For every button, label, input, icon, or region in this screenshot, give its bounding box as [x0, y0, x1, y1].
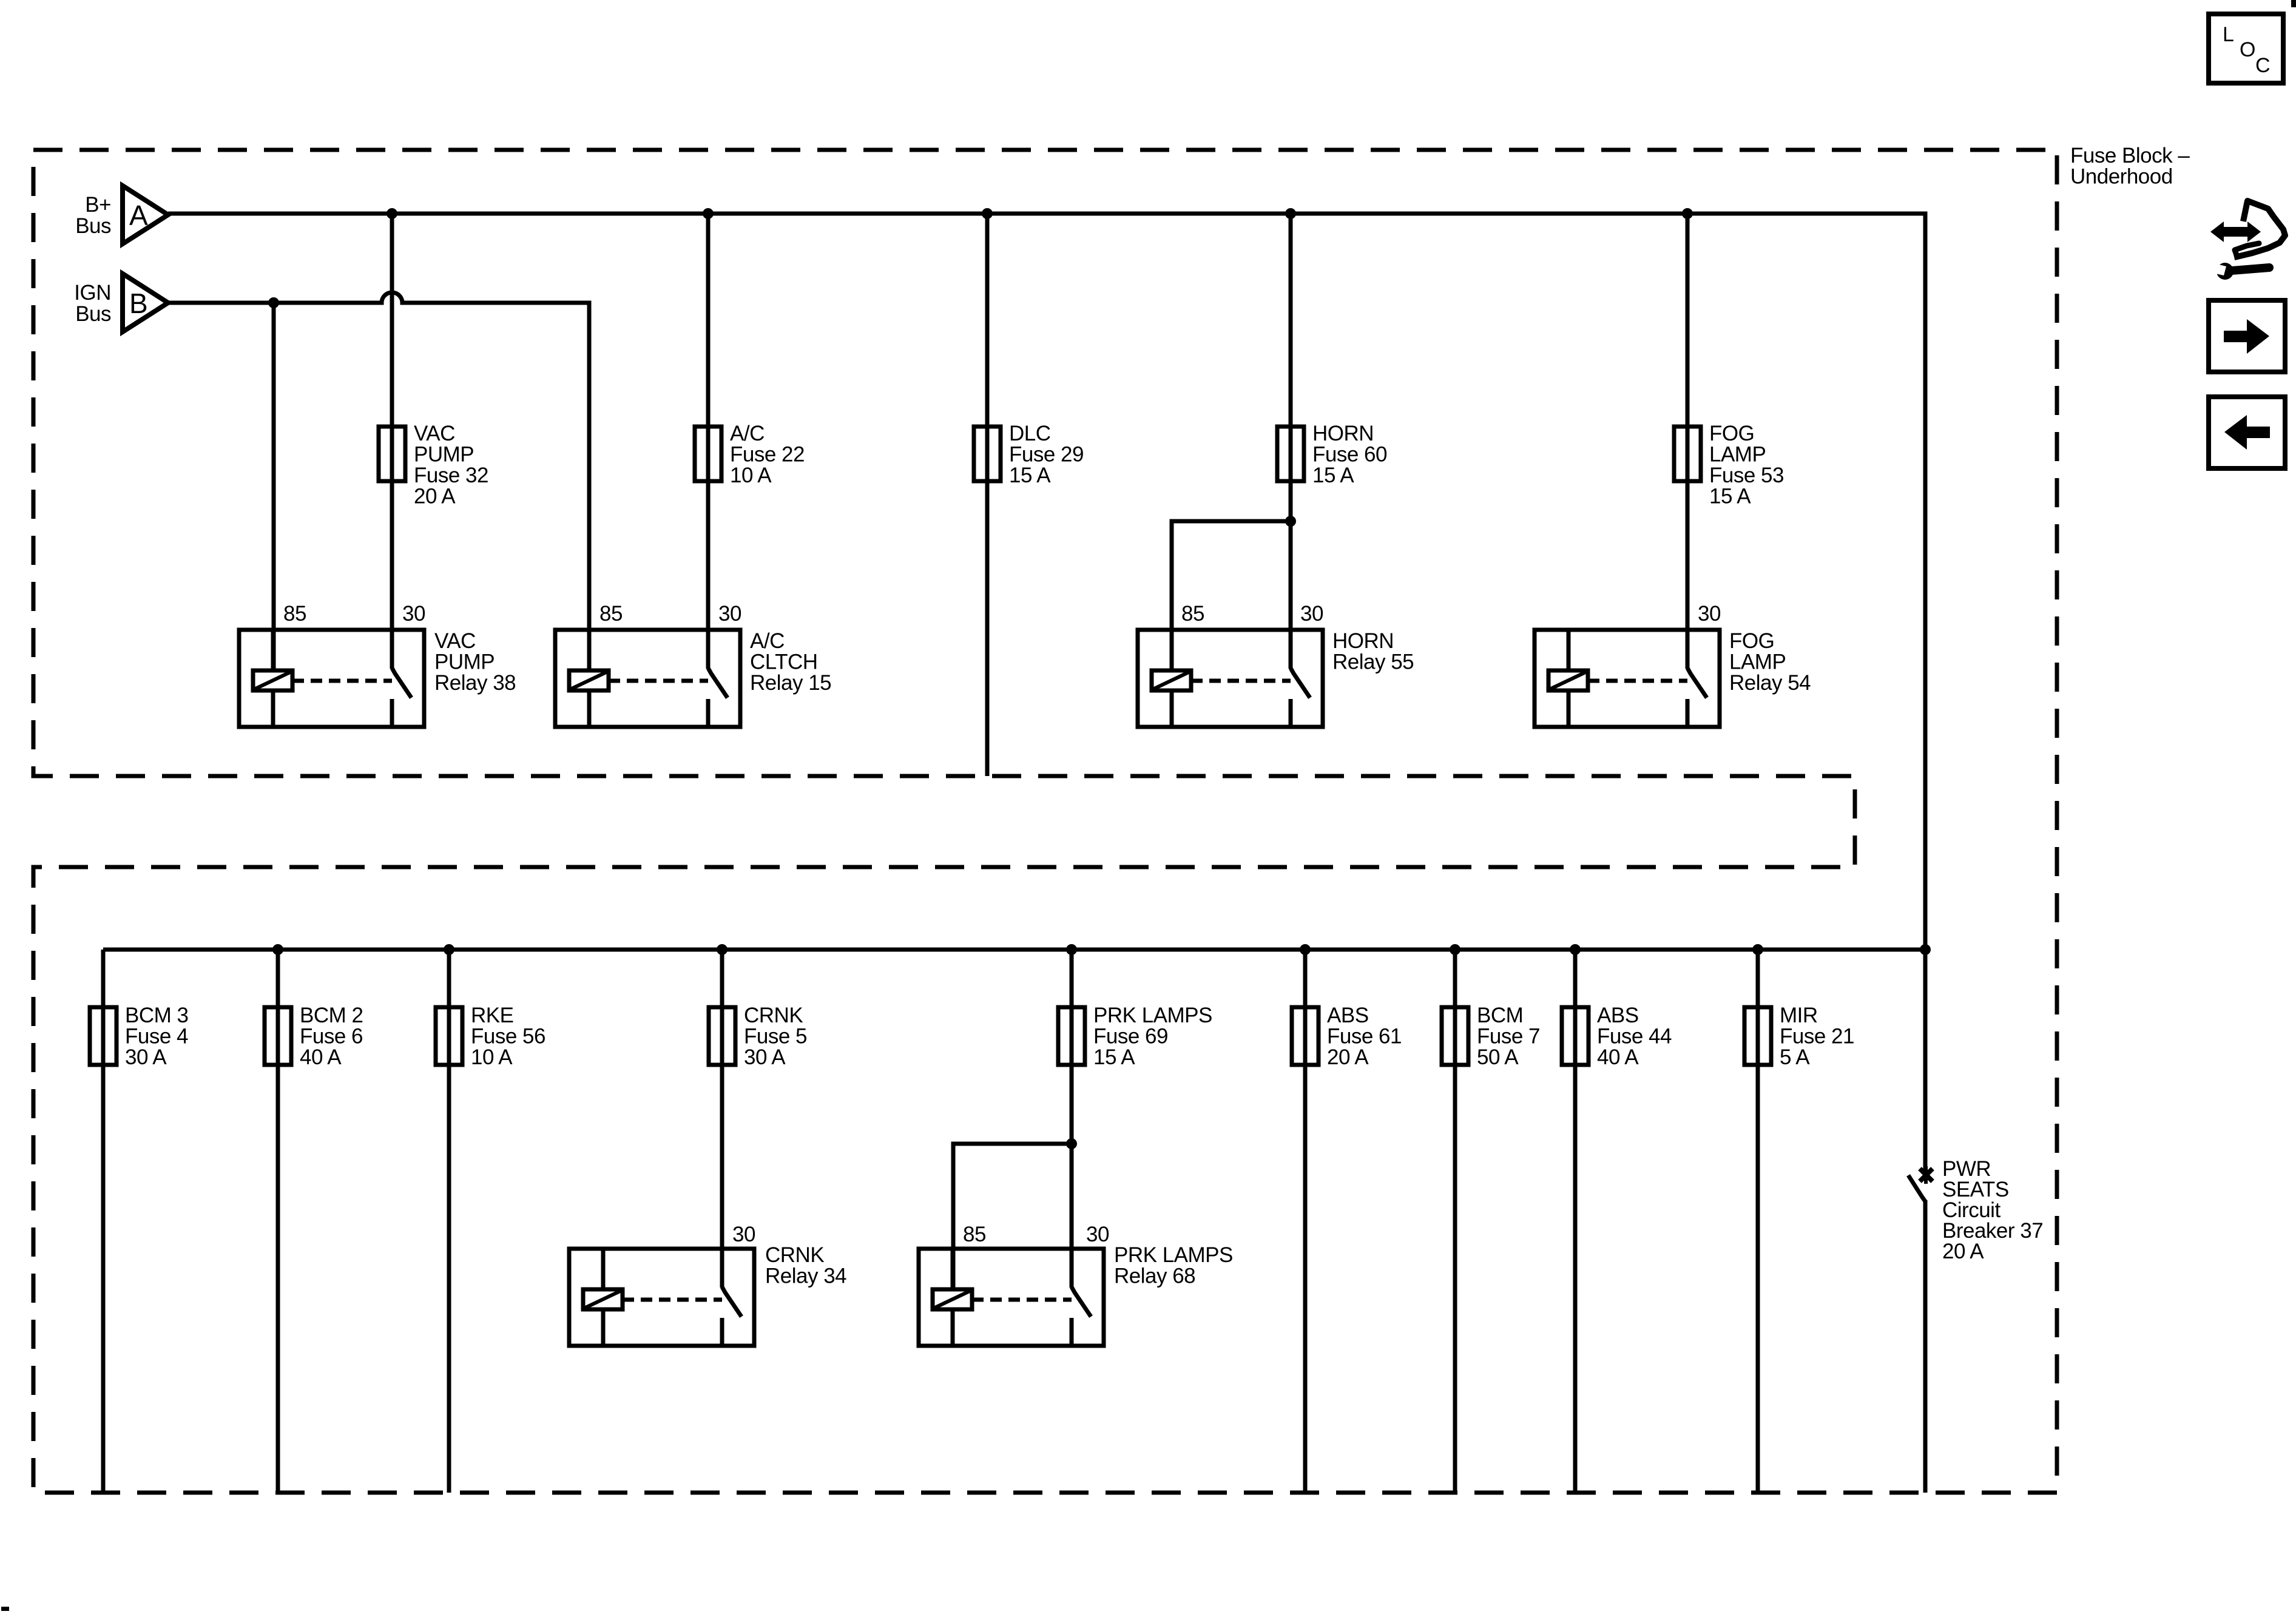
svg-text:85: 85: [963, 1223, 986, 1246]
fuse F69 PRK LAMPS 15A label: [1093, 1004, 1212, 1069]
fuse F69 PRK LAMPS 15A: [1058, 1007, 1085, 1065]
svg-text:85: 85: [283, 602, 306, 626]
svg-text:L: L: [2223, 23, 2234, 46]
legend box: left arrow: [2209, 397, 2285, 468]
fuse F6 BCM 2 40A: [265, 1007, 291, 1065]
svg-text:15 A: 15 A: [1709, 485, 1751, 508]
wire: ABS fuse 61 drop: [1303, 950, 1308, 1493]
svg-text:Fuse 32: Fuse 32: [414, 464, 488, 487]
wire: VAC PUMP relay 85 drop: [272, 303, 276, 670]
wire: B+ to VAC PUMP fuse to relay 38 pin 30: [390, 214, 394, 669]
label: Fuse Block - Underhood: [2070, 144, 2190, 189]
svg-text:IGN: IGN: [74, 281, 111, 305]
svg-text:Fuse 69: Fuse 69: [1093, 1025, 1168, 1048]
wire: BCM 2 fuse drop: [276, 950, 280, 1493]
svg-text:30: 30: [732, 1223, 755, 1246]
svg-text:50 A: 50 A: [1477, 1045, 1519, 1069]
svg-text:Relay 15: Relay 15: [750, 671, 831, 695]
svg-text:Bus: Bus: [75, 302, 111, 326]
fuse F60 HORN 15A: [1277, 427, 1304, 481]
connector B (IGN Bus) triangle: [123, 274, 168, 332]
svg-text:30: 30: [402, 602, 425, 626]
junction dot B+ bus at FOG LAMP fuse: [1682, 208, 1693, 219]
svg-text:VAC: VAC: [414, 422, 455, 445]
junction dot lower bus at CRNK fuse: [717, 944, 728, 955]
svg-text:Underhood: Underhood: [2070, 165, 2173, 189]
svg-text:30: 30: [1698, 602, 1721, 626]
svg-text:30: 30: [1086, 1223, 1109, 1246]
fuse F21 MIR 5A: [1744, 1007, 1771, 1065]
svg-text:Fuse 7: Fuse 7: [1477, 1025, 1540, 1048]
svg-text:Fuse 6: Fuse 6: [300, 1025, 363, 1048]
relay K15 A/C CLTCH Relay 15: [555, 630, 740, 727]
circuit breaker CB37 PWR SEATS (switch blade with star): [1908, 1166, 1933, 1201]
wire: MIR fuse drop: [1756, 950, 1760, 1493]
relay K38 label: [434, 629, 516, 695]
svg-text:Fuse 56: Fuse 56: [471, 1025, 545, 1048]
junction dot lower bus at ABS fuse 61: [1300, 944, 1311, 955]
junction dot B+ bus at HORN fuse: [1285, 208, 1296, 219]
fuse F29 DLC 15A: [974, 427, 1001, 481]
fuse F53 FOG LAMP 15A label: [1709, 422, 1784, 508]
fuse F56 RKE 10A: [436, 1007, 462, 1065]
svg-text:30: 30: [718, 602, 741, 626]
fuse F32 VAC PUMP 20A: [379, 427, 405, 481]
wire: HORN relay 85 branch: [1172, 521, 1291, 670]
fuse F61 ABS 20A label: [1327, 1004, 1402, 1069]
junction dot lower bus at MIR fuse: [1752, 944, 1763, 955]
label: IGN Bus: [74, 281, 111, 326]
junction dot below PRK LAMPS fuse: [1066, 1138, 1077, 1149]
svg-text:PRK LAMPS: PRK LAMPS: [1114, 1243, 1233, 1267]
svg-text:VAC: VAC: [434, 629, 476, 653]
svg-text:A: A: [129, 200, 148, 231]
wire: PRK LAMPS relay 85 branch: [953, 1144, 1072, 1289]
svg-text:B: B: [129, 288, 147, 319]
svg-text:HORN: HORN: [1312, 422, 1374, 445]
svg-text:B+: B+: [85, 193, 111, 217]
wire: RKE fuse drop: [447, 950, 451, 1493]
wire: CRNK fuse to relay 34 pin 30: [720, 950, 724, 1288]
svg-text:15 A: 15 A: [1312, 464, 1354, 487]
svg-text:15 A: 15 A: [1009, 464, 1051, 487]
svg-text:C: C: [2255, 54, 2270, 77]
junction dot B+ bus at DLC fuse: [982, 208, 993, 219]
svg-text:Fuse 61: Fuse 61: [1327, 1025, 1402, 1048]
svg-text:Fuse Block –: Fuse Block –: [2070, 144, 2190, 167]
svg-text:A/C: A/C: [750, 629, 785, 653]
svg-text:30 A: 30 A: [744, 1045, 786, 1069]
svg-text:Relay 54: Relay 54: [1729, 671, 1811, 695]
relay K38 VAC PUMP Relay 38: [239, 630, 424, 727]
fuse F44 ABS 40A label: [1597, 1004, 1672, 1069]
wire: BCM fuse 7 drop: [1453, 950, 1457, 1493]
fuse block outline (dashed) Fuse Block - Underhood: [33, 150, 2057, 1493]
legend box L-O-C: [2209, 14, 2283, 83]
svg-text:HORN: HORN: [1332, 629, 1394, 653]
relay K34 label: [765, 1243, 846, 1288]
svg-text:Relay 38: Relay 38: [434, 671, 516, 695]
junction dot lower bus at PRK LAMPS fuse: [1066, 944, 1077, 955]
fuse F61 ABS 20A: [1292, 1007, 1319, 1065]
svg-text:Bus: Bus: [75, 214, 111, 238]
page mark top-right (cropped page number): [2291, 0, 2296, 7]
fuse F60 HORN 15A label: [1312, 422, 1387, 487]
wire: B+ bus horizontal and right vertical drop: [168, 214, 1925, 950]
svg-text:ABS: ABS: [1327, 1004, 1369, 1027]
relay K34 CRNK Relay 34: [569, 1249, 754, 1346]
svg-text:Fuse 44: Fuse 44: [1597, 1025, 1672, 1048]
svg-text:Fuse 22: Fuse 22: [730, 443, 805, 467]
svg-text:Fuse 4: Fuse 4: [125, 1025, 188, 1048]
wire: B+ to DLC fuse down to box edge: [985, 214, 990, 776]
svg-text:Fuse 53: Fuse 53: [1709, 464, 1784, 487]
svg-text:LAMP: LAMP: [1709, 443, 1766, 467]
svg-text:40 A: 40 A: [1597, 1045, 1639, 1069]
svg-text:DLC: DLC: [1009, 422, 1051, 445]
wire: IGN bus with hop over VAC PUMP fuse wire: [168, 292, 589, 670]
svg-text:20 A: 20 A: [1942, 1240, 1984, 1263]
svg-text:PRK LAMPS: PRK LAMPS: [1093, 1004, 1212, 1027]
junction dot B+ bus at A/C fuse: [703, 208, 714, 219]
fuse F21 MIR 5A label: [1780, 1004, 1854, 1069]
svg-text:85: 85: [1181, 602, 1204, 626]
fuse F5 CRNK 30A: [709, 1007, 735, 1065]
page mark bottom-left: [1, 1607, 9, 1611]
relay K55 label: [1332, 629, 1414, 674]
wire: feed to PWR SEATS circuit breaker: [1923, 950, 1928, 1169]
fuse F5 CRNK 30A label: [744, 1004, 807, 1069]
svg-text:Fuse 5: Fuse 5: [744, 1025, 807, 1048]
fuse F44 ABS 40A: [1562, 1007, 1589, 1065]
svg-text:PUMP: PUMP: [414, 443, 474, 467]
junction dot lower bus at ABS fuse 44: [1570, 944, 1581, 955]
junction dot B+ bus at VAC PUMP fuse: [387, 208, 397, 219]
wire: ABS fuse 44 drop: [1573, 950, 1578, 1493]
svg-text:20 A: 20 A: [414, 485, 456, 508]
svg-text:Fuse 60: Fuse 60: [1312, 443, 1387, 467]
fuse F7 BCM 50A: [1442, 1007, 1468, 1065]
svg-text:Relay 68: Relay 68: [1114, 1264, 1195, 1288]
legend box: right arrow: [2209, 300, 2285, 372]
svg-text:30 A: 30 A: [125, 1045, 167, 1069]
wire: B+ to A/C fuse to relay 15 pin 30: [706, 214, 711, 669]
relay K68 label: [1114, 1243, 1233, 1288]
fuse F4 BCM 3 30A label: [125, 1004, 188, 1069]
fuse F6 BCM 2 40A label: [300, 1004, 363, 1069]
svg-text:O: O: [2240, 38, 2255, 61]
relay K54 FOG LAMP Relay 54: [1535, 630, 1720, 727]
fuse F22 A/C 10A label: [730, 422, 805, 487]
svg-text:Fuse 29: Fuse 29: [1009, 443, 1084, 467]
svg-text:5 A: 5 A: [1780, 1045, 1810, 1069]
svg-text:Fuse 21: Fuse 21: [1780, 1025, 1854, 1048]
fuse F29 DLC 15A label: [1009, 422, 1084, 487]
svg-text:A/C: A/C: [730, 422, 765, 445]
fuse F56 RKE 10A label: [471, 1004, 545, 1069]
label: B+ Bus: [75, 193, 111, 238]
legend icon: harness with double arrow and wrench: [2210, 201, 2285, 280]
junction dot IGN bus / VAC PUMP relay 85: [268, 297, 279, 308]
svg-text:20 A: 20 A: [1327, 1045, 1369, 1069]
junction dot lower bus at BCM 2 fuse: [272, 944, 283, 955]
svg-text:CRNK: CRNK: [744, 1004, 803, 1027]
relay K55 HORN Relay 55: [1138, 630, 1323, 727]
svg-text:MIR: MIR: [1780, 1004, 1818, 1027]
svg-text:BCM: BCM: [1477, 1004, 1523, 1027]
junction dot lower bus at BCM fuse 7: [1450, 944, 1460, 955]
circuit breaker CB37 label: [1942, 1157, 2043, 1263]
svg-text:LAMP: LAMP: [1729, 650, 1786, 674]
svg-text:Relay 34: Relay 34: [765, 1264, 846, 1288]
fuse F7 BCM 50A label: [1477, 1004, 1540, 1069]
svg-text:PUMP: PUMP: [434, 650, 495, 674]
svg-text:FOG: FOG: [1729, 629, 1774, 653]
svg-text:85: 85: [599, 602, 623, 626]
svg-text:BCM 3: BCM 3: [125, 1004, 188, 1027]
fuse F32 VAC PUMP 20A label: [414, 422, 488, 508]
wire: PRK LAMPS fuse to relay 68 pin 30: [1070, 950, 1074, 1288]
svg-text:RKE: RKE: [471, 1004, 513, 1027]
junction dot lower bus at PWR SEATS breaker: [1920, 944, 1931, 955]
svg-text:15 A: 15 A: [1093, 1045, 1135, 1069]
fuse F53 FOG LAMP 15A: [1674, 427, 1701, 481]
wire: B+ to HORN fuse to relay 55 pin 30: [1289, 214, 1293, 669]
svg-text:30: 30: [1300, 602, 1323, 626]
wire: PWR SEATS breaker output drop: [1923, 1200, 1928, 1493]
wire: B+ to FOG LAMP fuse to relay 54 pin 30: [1686, 214, 1690, 669]
svg-text:CLTCH: CLTCH: [750, 650, 818, 674]
relay K15 label: [750, 629, 831, 695]
svg-text:BCM 2: BCM 2: [300, 1004, 363, 1027]
junction dot lower bus at RKE fuse: [444, 944, 454, 955]
svg-text:ABS: ABS: [1597, 1004, 1639, 1027]
relay K68 PRK LAMPS Relay 68: [919, 1249, 1104, 1346]
relay K54 label: [1729, 629, 1811, 695]
svg-text:40 A: 40 A: [300, 1045, 342, 1069]
svg-text:FOG: FOG: [1709, 422, 1754, 445]
connector A (B+ Bus) triangle: [123, 186, 168, 244]
svg-text:10 A: 10 A: [471, 1045, 513, 1069]
svg-text:10 A: 10 A: [730, 464, 772, 487]
fuse F4 BCM 3 30A: [90, 1007, 116, 1065]
svg-text:Relay 55: Relay 55: [1332, 650, 1414, 674]
wire: lower B+ feed bus: [103, 948, 1925, 952]
junction dot below HORN fuse: [1285, 516, 1296, 527]
fuse F22 A/C 10A: [695, 427, 721, 481]
svg-text:CRNK: CRNK: [765, 1243, 824, 1267]
wire: BCM 3 fuse drop: [101, 950, 106, 1493]
